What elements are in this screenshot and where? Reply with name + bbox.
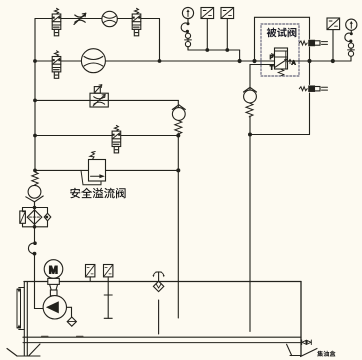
wire sensor S3 stem — [332, 30, 334, 61]
wire check-valve V1 column x=178.3 upper — [177, 100, 179, 107]
junction dot row4-left — [33, 134, 37, 138]
hose joint under G1 — [181, 22, 189, 33]
left brace — [7, 349, 17, 357]
valve A 2/2 cartridge on row1 — [52, 8, 61, 36]
svg-text:A: A — [292, 61, 296, 67]
junction dot sensor bus joins main — [238, 59, 242, 63]
wire row1 horizontal y=18.5 — [35, 18, 160, 20]
wire gauge G1 drop — [187, 19, 189, 24]
filter assembly with bypass — [20, 206, 51, 229]
level gauge on tank left — [17, 288, 24, 330]
motor M1 — [44, 260, 63, 279]
pump P1 — [43, 296, 66, 319]
pressure sensor S3 — [327, 18, 340, 30]
right brace and drip tray — [301, 349, 318, 357]
tank outline — [23, 282, 301, 356]
label 被试阀 — [267, 28, 297, 38]
flow meter F2 large circle on row2 — [81, 49, 105, 73]
bypass relief in filter — [20, 211, 26, 223]
quick coupling on bypass leg — [299, 40, 327, 45]
check valve V1 (seat top, spring below) — [172, 105, 185, 135]
proportional throttle box on row3 — [90, 85, 108, 107]
junction dot sensor S3 on main — [331, 59, 335, 63]
hose joint under G2 — [345, 32, 353, 43]
wire breather suction pipe — [158, 300, 160, 334]
wire right return y=134.5 — [250, 134, 310, 136]
check valve V3 on supply bus (spring above, seat below) — [26, 172, 43, 207]
junction dot row5-left — [33, 169, 37, 173]
gauge G2 pressure gauge — [346, 19, 357, 30]
tested valve dashed enclosure 被试阀 — [261, 24, 299, 76]
junction dot sensor bus S1 — [205, 48, 209, 52]
junction dot row2-left — [33, 59, 37, 63]
tank weld marks — [42, 335, 84, 337]
wire row2 main line y=61 — [35, 60, 351, 62]
junction dot V2 bottom — [248, 133, 252, 137]
suction strainer — [67, 317, 76, 326]
svg-text:P: P — [270, 55, 274, 61]
wire pump suction to strainer — [67, 307, 72, 316]
svg-text:M: M — [49, 264, 58, 276]
gauge G1 pressure gauge — [182, 7, 193, 18]
bypass check in filter — [44, 213, 51, 221]
valve C 2/2 cartridge on row2 — [52, 51, 61, 79]
shaft coupling — [48, 278, 60, 295]
wire row3 horizontal y=100.4 — [35, 99, 178, 101]
junction dot sensor bus S2 — [225, 48, 229, 52]
wire drain column x=178.3 lower — [177, 133, 179, 318]
pressure sensor S2 — [221, 8, 234, 19]
wire row1 down-leg x=159.5 — [159, 19, 161, 62]
junction dot bypass left — [252, 59, 256, 63]
wire gauge G2 drop — [350, 30, 352, 33]
wire tested-valve T-line y=64.5 — [250, 64, 275, 66]
test couplings under G1 — [185, 31, 192, 50]
tested valve relief body — [272, 48, 292, 76]
wire sensor-bus down-leg x=239.6 — [239, 50, 241, 61]
valve D 2/2 cartridge on row4 — [112, 125, 121, 153]
junction dot filter bottom — [33, 225, 37, 229]
drain cock at tank right — [302, 340, 312, 345]
junction dot V1 bottom — [176, 134, 180, 138]
tank left leg — [7, 337, 40, 356]
valve B 2/2 cartridge on row1 — [132, 8, 141, 36]
pressure sensor S1 — [201, 8, 214, 19]
wire row4 horizontal y=135.5 — [35, 135, 178, 137]
throttle valve on row1 — [74, 13, 86, 24]
wire left supply bus vertical x=35 — [34, 19, 36, 173]
wire check-valve V2 column x=250 — [249, 65, 251, 90]
label 安全溢流阀 — [70, 188, 125, 199]
hose joint on supply bus — [28, 241, 36, 255]
wire bypass loop around tested valve — [255, 17, 310, 61]
wire sensor S2 stem — [226, 19, 228, 51]
junction dot row1/row2 merge — [158, 59, 162, 63]
filter element diamond — [27, 210, 42, 225]
check valve V2 (seat top, spring below) — [244, 87, 257, 116]
label 集油盒 — [317, 351, 335, 357]
junction dot filter top — [33, 206, 37, 210]
breather / air filter on tank top — [153, 272, 165, 292]
wire sensor S1 stem — [206, 19, 208, 51]
wire row5 relief line y=170.4 — [35, 169, 89, 171]
junction dot bypass right — [307, 59, 311, 63]
test couplings under G2 — [348, 41, 355, 56]
wire right column x=309.5 lower — [309, 61, 311, 85]
level sensor LS on tank top — [86, 265, 95, 282]
quick coupling on return leg — [299, 86, 327, 91]
temperature sensor TS with probe — [104, 265, 113, 319]
svg-text:T: T — [270, 66, 274, 72]
tank right leg — [287, 344, 317, 356]
wire gauge/sensor bus y=50 — [188, 49, 240, 51]
junction dot row3-left — [33, 99, 37, 103]
junction dot relief output — [176, 168, 180, 172]
flow meter F1 small circle on row1 — [102, 11, 117, 26]
safety relief valve 安全溢流阀 — [81, 152, 106, 185]
